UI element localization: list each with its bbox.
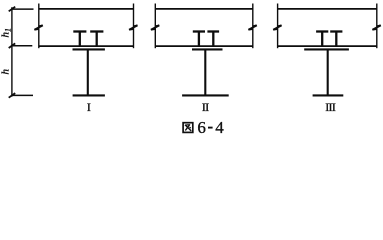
extension line top (h1 top) <box>11 8 33 10</box>
figure II: top plate <box>155 8 253 10</box>
tick bottom <box>9 93 16 98</box>
figure III: second plate <box>278 45 377 47</box>
figure I: break line left <box>38 4 40 49</box>
figure II: rail right stem <box>212 32 214 46</box>
figure I: bottom flange <box>73 94 105 96</box>
figure III: break line left <box>277 4 279 49</box>
figure II: rail right cap <box>207 30 219 32</box>
figure II: bottom flange (wide) <box>182 94 229 96</box>
svg-text:6: 6 <box>197 118 206 137</box>
figure III: web <box>327 50 329 96</box>
tick mid <box>9 43 16 48</box>
figure I: web <box>87 50 89 96</box>
figure I: rail left cap <box>73 30 86 32</box>
figure I: rail right stem <box>96 32 98 46</box>
figure I: top plate <box>39 8 134 10</box>
figure I: rail right cap <box>90 30 103 32</box>
svg-text:II: II <box>202 100 209 114</box>
tick top <box>9 7 16 12</box>
figure II: break line right <box>252 4 254 49</box>
dimension line left <box>11 7 13 96</box>
figure I: rail left stem <box>79 32 81 46</box>
figure II: rail left stem <box>198 32 200 46</box>
figure III: top flange underside (wide) <box>304 48 349 50</box>
figure III: break line right <box>376 4 378 49</box>
figure II: web <box>204 50 206 96</box>
figure III: rail right cap <box>330 30 342 32</box>
figure III: top plate <box>278 8 377 10</box>
figure III: bottom flange <box>313 94 344 96</box>
caption character tu (图) drawn as strokes <box>183 123 193 133</box>
figure III: rail right stem <box>335 32 337 46</box>
extension line mid (h1 bottom / h top) <box>11 45 32 47</box>
figure II: second plate <box>155 45 253 47</box>
figure II: rail left cap <box>193 30 205 32</box>
extension line bottom (h bottom) <box>11 94 33 96</box>
svg-text:III: III <box>325 100 336 114</box>
figure I: top flange underside <box>73 48 105 50</box>
svg-text:I: I <box>87 100 91 114</box>
figure II: top flange underside <box>192 48 223 50</box>
svg-text:4: 4 <box>215 118 224 137</box>
figure II: break line left <box>154 4 156 49</box>
figure III: rail left cap <box>316 30 328 32</box>
figure I: break line right <box>133 4 135 49</box>
svg-text:h: h <box>0 69 12 75</box>
figure III: rail left stem <box>321 32 323 46</box>
figure I: second plate <box>39 45 134 47</box>
